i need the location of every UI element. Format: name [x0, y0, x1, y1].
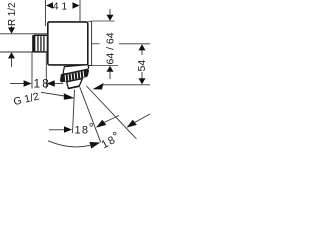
ray R1 18deg [80, 87, 101, 142]
dimension 54 top extension line [92, 43, 100, 45]
angle 18deg second: right arrow on R2 [127, 120, 137, 128]
dimension 41 right arrowhead [73, 2, 80, 9]
dimension 64/64 top arrow (outside, pointing down) [109, 9, 111, 15]
dimension 18 left extension line [31, 52, 33, 89]
dimension 64/64 top extension line [92, 20, 115, 22]
dimension 54 down arrow [139, 78, 146, 84]
dimension 18 left leader and arrow [10, 83, 24, 85]
svg-text:54: 54 [136, 60, 148, 72]
hose connector tip bottom edge [68, 86, 79, 89]
dimension 54 up arrow [139, 44, 146, 50]
leader arrowhead to connector outlet [93, 83, 104, 90]
dimension 64/64 bottom arrow (outside, pointing up) [107, 66, 114, 72]
angle 18deg first: left arrow on R0 [49, 129, 64, 131]
pipe bottom line [0, 51, 48, 53]
svg-text:64 / 64: 64 / 64 [105, 32, 117, 64]
dimension 18 right arrow and leader [47, 80, 55, 86]
dimension R1/2 up arrow [8, 52, 15, 58]
hose connector knurled nut [60, 70, 89, 83]
dimension R1/2 down arrow [11, 26, 13, 29]
svg-text:18°: 18° [75, 121, 96, 136]
angle 18deg second: arc with arrowhead on R1 [48, 141, 90, 147]
dimension 18 right extension line [45, 53, 47, 89]
dimension 54 bottom extension line [103, 84, 150, 86]
G 1/2 leader line [41, 92, 65, 96]
dimension 64/64 bottom extension line [92, 65, 118, 67]
threaded nipple R1/2 [32, 35, 47, 52]
ray R2 36deg [87, 86, 137, 139]
dimension 41 extension line left [45, 0, 47, 26]
hose connector collar [63, 65, 88, 74]
dimension 41 left arrowhead [46, 2, 53, 9]
G 1/2 leader arrowhead [64, 93, 75, 100]
hose connector tip [67, 79, 83, 89]
svg-text:R 1/2: R 1/2 [7, 3, 18, 26]
wall plate square face [48, 22, 88, 65]
ray R0 outlet axis left [73, 90, 75, 134]
wall plate side sliver [88, 21, 91, 65]
pipe top line [0, 33, 48, 35]
svg-text:41: 41 [53, 1, 70, 13]
angle 18deg first: right arrow on R1 [96, 120, 106, 128]
dimension 41 extension line right [79, 0, 81, 21]
